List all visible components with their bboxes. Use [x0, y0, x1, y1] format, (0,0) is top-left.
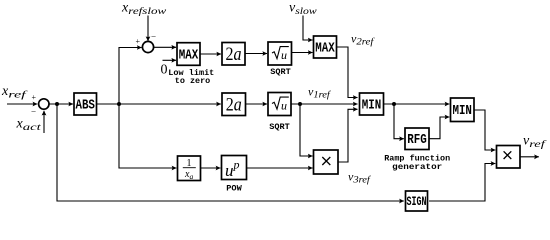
- block MIN second: [451, 98, 475, 122]
- svg-text:u: u: [281, 48, 287, 62]
- svg-text:MIN: MIN: [362, 98, 382, 113]
- junction dot J3: [298, 102, 302, 106]
- svg-text:ABS: ABS: [75, 98, 95, 113]
- svg-text:p: p: [233, 158, 240, 172]
- wire: RFG up to MIN second lower input: [429, 117, 449, 139]
- block SIGN: [406, 191, 428, 211]
- svg-text:2a: 2a: [226, 95, 242, 116]
- summing junction S2 (x_ref - x_act): [31, 93, 49, 117]
- svg-text:u: u: [281, 99, 287, 113]
- wire: POW to multiplier lower input: [247, 167, 313, 169]
- wire: MIN first to MIN second: [384, 103, 450, 105]
- output multiplier X: [497, 146, 521, 169]
- svg-text:+: +: [32, 93, 37, 102]
- block ABS U1: [74, 93, 97, 115]
- block 2a gain (top): [222, 43, 245, 66]
- junction dot J2: [117, 102, 121, 106]
- block 1/xa divider: [178, 156, 201, 181]
- svg-text:MAX: MAX: [315, 42, 335, 57]
- wire: ABS to 2a (middle row): [97, 103, 221, 105]
- block u^p POW: [222, 156, 247, 181]
- block MAX low limiter: [177, 43, 200, 66]
- block MIN first: [360, 93, 384, 115]
- caption: Low limit to zero: [168, 68, 214, 86]
- wire: J4 down to RFG: [394, 104, 404, 139]
- svg-text:SIGN: SIGN: [407, 194, 427, 209]
- svg-text:−: −: [31, 107, 36, 117]
- wire: MAX to 2a (top row): [200, 53, 221, 55]
- junction dot J4: [392, 102, 396, 106]
- wire: v_slow down into MAX slow limit: [303, 16, 313, 41]
- wire: 2a to sqrt-u (top row): [245, 53, 267, 55]
- wire: sqrt-u to MAX slow limit: [292, 52, 313, 54]
- svg-text:u: u: [225, 161, 234, 180]
- svg-text:generator: generator: [392, 162, 442, 172]
- caption Ramp function generator: [384, 153, 450, 172]
- svg-text:to zero: to zero: [175, 76, 211, 86]
- svg-text:MAX: MAX: [179, 49, 199, 64]
- svg-text:−: −: [151, 32, 156, 42]
- wire: MIN second down to output multiplier upper input: [474, 110, 495, 150]
- wire: multiplier up to MIN first lower input: [338, 109, 358, 162]
- wire: 2a to sqrt-u (middle row): [246, 103, 268, 105]
- wire: J3 down to multiplier upper input: [300, 104, 313, 156]
- wire: v_ref output arrow: [520, 156, 539, 158]
- summing junction S1 (x_refslow minus): [136, 32, 157, 53]
- svg-text:0: 0: [161, 63, 168, 78]
- svg-text:MIN: MIN: [452, 104, 472, 119]
- block sqrt(u) SQRT (top): [268, 42, 292, 65]
- svg-text:2a: 2a: [226, 44, 242, 65]
- wire: feedback from J1 down and right to SIGN: [57, 104, 404, 201]
- svg-text:POW: POW: [226, 183, 242, 193]
- wire: x_act feedback arrow up into S2: [43, 111, 45, 133]
- svg-text:+: +: [136, 37, 141, 46]
- wire: S1 to MAX low limiter: [153, 46, 176, 48]
- wire: J2 down to 1/xa divider: [119, 104, 176, 168]
- wire: x_refslow arrow down into S1: [147, 16, 149, 42]
- svg-text:RFG: RFG: [407, 133, 427, 148]
- svg-text:SQRT: SQRT: [270, 67, 291, 77]
- wire: J2 up to summing junction S1: [119, 48, 142, 105]
- wire: 1/xa to u^p POW: [201, 167, 221, 169]
- svg-text:SQRT: SQRT: [269, 122, 290, 132]
- block sqrt(u) SQRT (middle): [268, 93, 291, 116]
- wire: x_ref input arrow: [7, 103, 37, 105]
- svg-text:1: 1: [187, 158, 192, 169]
- wire: MAX slow limit output down to MIN top input: [337, 47, 358, 98]
- wire: S2 to ABS: [49, 103, 73, 105]
- multiplier X (v1 x pow): [314, 150, 339, 174]
- block RFG ramp function generator: [405, 128, 429, 150]
- wire: SIGN up to output multiplier lower input: [429, 164, 495, 202]
- junction dot J1: [55, 102, 59, 106]
- block MAX slow limit: [314, 36, 337, 58]
- wire: 0 constant arrow into MAX: [163, 59, 177, 61]
- block 2a gain (middle): [222, 93, 246, 116]
- wire: sqrt-u to MIN first: [291, 103, 358, 105]
